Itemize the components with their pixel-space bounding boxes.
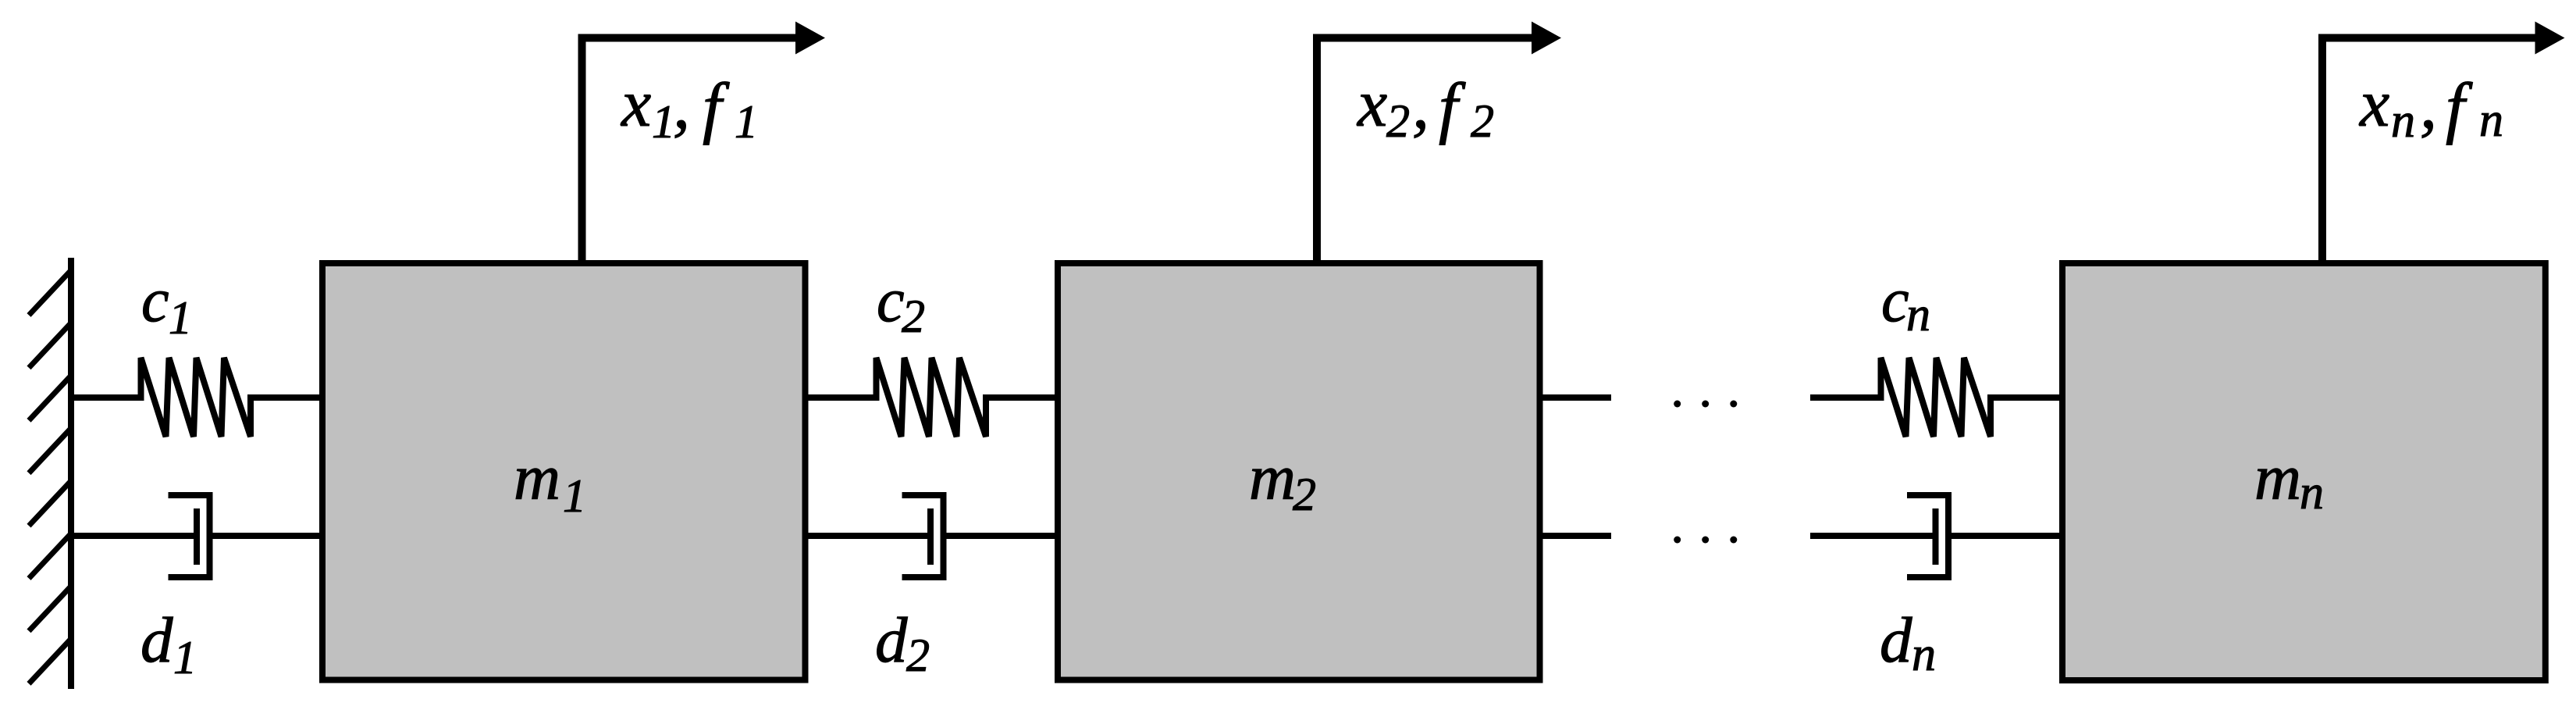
svg-text:2: 2 bbox=[1386, 95, 1410, 147]
label cn bbox=[1881, 266, 1930, 341]
svg-text:m: m bbox=[1249, 441, 1296, 513]
svg-text:c: c bbox=[877, 266, 905, 335]
damper d1 rod left bbox=[71, 533, 197, 539]
svg-text:n: n bbox=[1906, 288, 1930, 341]
damper d1 piston bbox=[194, 508, 200, 565]
svg-text:m: m bbox=[514, 441, 560, 513]
arrow x2,f2 bbox=[1317, 38, 1533, 264]
svg-text:c: c bbox=[1881, 266, 1909, 335]
label d2 bbox=[875, 604, 930, 681]
label x1, f1 bbox=[620, 66, 758, 148]
svg-text:2: 2 bbox=[1471, 95, 1494, 147]
svg-text:1: 1 bbox=[735, 96, 758, 148]
svg-text:d: d bbox=[875, 604, 908, 676]
ellipsis dots upper bbox=[1674, 401, 1737, 408]
spring c2 bbox=[809, 358, 1055, 437]
arrow xn,fn bbox=[2322, 38, 2536, 264]
wire stub m2 right upper bbox=[1543, 394, 1612, 401]
svg-text:,: , bbox=[673, 67, 690, 143]
svg-text:2: 2 bbox=[902, 291, 925, 342]
svg-text:f: f bbox=[703, 70, 730, 146]
arrow x1,f1 bbox=[582, 38, 799, 264]
damper d2 rod left bbox=[809, 533, 931, 539]
damper d2 rod right bbox=[944, 533, 1055, 539]
spring cn bbox=[1810, 358, 2059, 437]
svg-text:2: 2 bbox=[1293, 469, 1316, 520]
svg-text:f: f bbox=[1439, 70, 1466, 146]
svg-text:d: d bbox=[1880, 604, 1912, 676]
label x2, f2 bbox=[1356, 66, 1494, 147]
mass m1 bbox=[322, 263, 806, 680]
ellipsis dots lower bbox=[1674, 537, 1737, 544]
svg-text:1: 1 bbox=[169, 292, 192, 344]
label c2 bbox=[877, 266, 925, 342]
damper d2 piston bbox=[927, 508, 934, 565]
spring c1 bbox=[71, 358, 319, 437]
wire stub m2 right lower bbox=[1543, 533, 1612, 539]
damper dn rod right bbox=[1948, 533, 2059, 539]
damper d1 rod right bbox=[210, 533, 320, 539]
svg-text:f: f bbox=[2446, 70, 2473, 146]
svg-text:,: , bbox=[2420, 67, 2437, 143]
svg-text:n: n bbox=[2479, 94, 2503, 147]
damper dn piston bbox=[1933, 508, 1939, 565]
label c1 bbox=[141, 266, 192, 344]
svg-text:,: , bbox=[1412, 67, 1429, 143]
svg-text:n: n bbox=[2300, 466, 2324, 519]
label xn, fn bbox=[2358, 66, 2503, 148]
label m1 bbox=[514, 441, 586, 522]
svg-text:1: 1 bbox=[563, 470, 586, 522]
mass mn bbox=[2062, 263, 2546, 680]
mass m2 bbox=[1058, 263, 1540, 680]
svg-text:1: 1 bbox=[652, 96, 675, 148]
svg-text:x: x bbox=[2358, 66, 2389, 141]
damper d2 cylinder bbox=[902, 495, 944, 577]
label m2 bbox=[1249, 441, 1316, 520]
label d1 bbox=[141, 604, 197, 683]
svg-text:x: x bbox=[1356, 66, 1387, 141]
svg-text:n: n bbox=[2391, 95, 2415, 148]
damper dn rod left bbox=[1810, 533, 1936, 539]
fixed wall bbox=[29, 258, 71, 689]
svg-text:1: 1 bbox=[173, 632, 197, 683]
svg-text:n: n bbox=[1912, 628, 1936, 681]
svg-text:x: x bbox=[620, 66, 651, 141]
svg-text:m: m bbox=[2254, 441, 2301, 513]
damper d1 cylinder bbox=[169, 495, 210, 577]
svg-text:2: 2 bbox=[906, 630, 930, 681]
svg-text:c: c bbox=[141, 266, 169, 335]
label mn bbox=[2254, 441, 2324, 519]
svg-text:d: d bbox=[141, 604, 173, 676]
damper dn cylinder bbox=[1907, 495, 1948, 577]
label dn bbox=[1880, 604, 1936, 681]
